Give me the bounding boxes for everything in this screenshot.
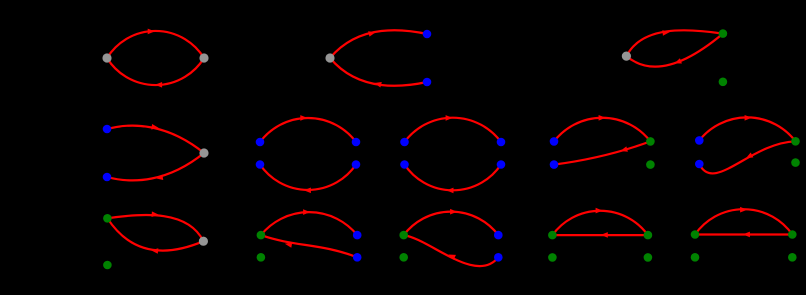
node green d8 tr xyxy=(791,137,800,146)
wire top arc d7 xyxy=(554,118,650,142)
wire top arc d1 xyxy=(107,31,204,58)
node green d3 bottom xyxy=(719,78,728,87)
arrow d1 top xyxy=(148,29,155,35)
node blue d5 bl xyxy=(256,160,265,169)
node blue d2 top xyxy=(423,30,432,39)
node green d10 tl xyxy=(257,231,266,240)
wire top arc d9 xyxy=(107,215,203,241)
wire top arc d12 xyxy=(552,211,648,235)
node gray d4 xyxy=(199,148,208,157)
node green d13 tr xyxy=(788,230,797,239)
wire top arc d11 xyxy=(404,212,499,235)
node blue d5 br xyxy=(352,160,361,169)
node blue d6 tl xyxy=(400,138,409,147)
wire line d12 xyxy=(552,234,648,236)
node green d13 br xyxy=(788,253,797,262)
arrow d1 bottom xyxy=(155,82,162,88)
node blue d2 bottom xyxy=(423,78,432,87)
node green d7 tr xyxy=(646,137,655,146)
node blue d6 tr xyxy=(497,138,506,147)
wire lower curve d7 xyxy=(554,141,650,164)
arrow d5 top xyxy=(300,115,307,121)
node green d13 bl xyxy=(691,253,700,262)
node green d12 tl xyxy=(548,231,557,240)
arrow d6 top xyxy=(446,115,453,121)
wire top arc d5 xyxy=(260,118,356,142)
wire top arc d10 xyxy=(261,212,357,235)
arrow d8 top xyxy=(745,115,752,121)
node green d8 br xyxy=(791,158,800,167)
wire bottom arc d5 xyxy=(260,165,356,190)
node blue d11 br xyxy=(494,253,503,262)
node blue d4 top xyxy=(103,125,112,134)
arrow d12 line xyxy=(601,232,608,238)
wire top arc d6 xyxy=(405,118,502,142)
wire bottom arc d6 xyxy=(405,165,502,191)
arrow d8 s-curve xyxy=(744,153,753,161)
wire bottom curve d2 xyxy=(330,58,427,86)
arrow d12 top xyxy=(596,208,603,214)
node gray d1 right xyxy=(199,53,208,62)
wire bottom arc d1 xyxy=(107,58,204,85)
node gray d1 left xyxy=(102,53,111,62)
arrow d10 lower xyxy=(284,241,292,248)
arrow d2 bottom xyxy=(374,80,382,87)
node green d9 tl xyxy=(103,214,112,223)
node green d12 tr xyxy=(644,231,653,240)
arrow d9 top xyxy=(152,211,159,217)
node blue d10 br xyxy=(353,253,362,262)
arrow d3 top xyxy=(662,29,670,35)
node green d11 tl xyxy=(399,231,408,240)
node blue d8 tl xyxy=(695,136,704,145)
node gray d3 xyxy=(622,52,631,61)
arrow d4 bottom xyxy=(155,174,163,181)
arrow d9 bottom xyxy=(151,247,159,253)
node blue d7 tl xyxy=(550,137,559,146)
wire top arc d8 xyxy=(699,117,795,141)
node blue d8 bl xyxy=(695,160,704,169)
node blue d10 tr xyxy=(353,231,362,240)
arrow d10 top xyxy=(303,209,310,215)
arrow d11 top xyxy=(450,209,457,215)
node blue d11 tr xyxy=(494,231,503,240)
node green d3 top xyxy=(719,29,728,38)
node blue d4 bottom xyxy=(103,173,112,182)
arrow d5 bottom xyxy=(304,188,311,194)
node green d11 bl xyxy=(399,253,408,262)
arrow d7 lower xyxy=(620,146,628,153)
node green d9 bl xyxy=(103,261,112,270)
node blue d5 tl xyxy=(256,138,265,147)
node blue d6 br xyxy=(497,160,506,169)
wire top curve d2 xyxy=(330,30,427,58)
node blue d5 tr xyxy=(352,138,361,147)
arrow d13 line xyxy=(743,232,750,238)
node green d12 bl xyxy=(548,253,557,262)
wire top arc d3 xyxy=(626,30,723,56)
wire bottom arc d3 xyxy=(626,34,723,67)
node blue d6 bl xyxy=(400,160,409,169)
wire top curve d4 xyxy=(107,126,204,153)
wire line d13 xyxy=(695,233,792,235)
node green d7 br xyxy=(646,160,655,169)
arrow d11 s-curve xyxy=(447,252,456,260)
wire bottom curve d4 xyxy=(107,153,204,180)
node green d13 tl xyxy=(691,230,700,239)
node green d10 bl xyxy=(257,253,266,262)
arrow d6 bottom xyxy=(446,188,453,194)
wire lower curve d10 xyxy=(261,235,357,257)
node gray d2 xyxy=(325,53,334,62)
wire s-curve d11 xyxy=(404,235,499,266)
arrow d7 top xyxy=(599,115,606,121)
wire top arc d13 xyxy=(695,209,792,234)
node gray d9 xyxy=(199,237,208,246)
arrow d3 bottom xyxy=(673,58,682,66)
node green d12 br xyxy=(644,253,653,262)
arrow d2 top xyxy=(368,30,376,37)
wire bottom arc d9 xyxy=(107,218,203,250)
arrow d4 top xyxy=(151,124,159,131)
arrow d13 top xyxy=(740,207,747,213)
node blue d7 bl xyxy=(550,160,559,169)
wire s-curve d8 xyxy=(699,141,795,173)
